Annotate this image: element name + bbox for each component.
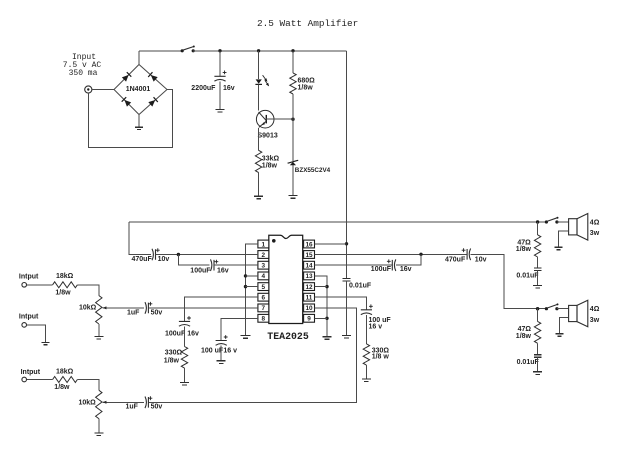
capacitor 470uF 10v ch2	[462, 248, 471, 260]
svg-text:100uF: 100uF	[371, 266, 392, 273]
wire pin14 to C100	[315, 264, 393, 266]
wire C ch2 to ground	[537, 357, 539, 371]
svg-text:7: 7	[262, 305, 266, 312]
wire R47 ch1 to cap	[537, 257, 539, 268]
resistor 33k	[255, 150, 261, 172]
label 10k ch1	[79, 305, 97, 312]
svg-text:10v: 10v	[475, 256, 487, 263]
wire R 33k to ground	[258, 173, 260, 196]
node zobel ch2	[536, 307, 539, 310]
ground zobel ch1	[533, 285, 542, 288]
node pin16 supply	[345, 242, 348, 245]
wire pin10 net	[148, 308, 356, 402]
svg-text:0.01uF: 0.01uF	[516, 272, 539, 279]
capacitor 100uF 16v pin6	[179, 316, 191, 326]
wire top rail right segment	[193, 50, 346, 52]
ground R330 left	[180, 382, 189, 385]
wire C1uF ch2 to wiper	[104, 401, 145, 403]
svg-text:2200uF: 2200uF	[191, 85, 216, 92]
wire pin15 net	[315, 253, 467, 255]
svg-text:16v: 16v	[223, 85, 235, 92]
label 18k ch1	[55, 273, 73, 297]
label 100uF ch2	[371, 266, 412, 273]
svg-text:18kΩ: 18kΩ	[56, 273, 74, 280]
ground R330 right	[362, 379, 371, 382]
svg-text:6: 6	[262, 295, 266, 302]
capacitor 1uF 50v ch2	[145, 396, 152, 408]
label 100uF pin6	[165, 331, 199, 338]
svg-text:1/8w: 1/8w	[55, 290, 71, 297]
node pin12 gnd	[325, 285, 328, 288]
wire C 2200uF to ground	[219, 82, 221, 109]
wire top speaker line y222	[129, 221, 546, 223]
svg-text:18kΩ: 18kΩ	[56, 368, 74, 375]
svg-text:1/8w: 1/8w	[54, 384, 70, 391]
label 330ohm left	[164, 350, 183, 365]
node bootstrap ch2	[419, 253, 422, 256]
resistor 330ohm right	[363, 344, 369, 365]
capacitor 0.01uF ch1	[534, 268, 542, 271]
node pin9 gnd	[325, 317, 328, 320]
svg-text:350 ma: 350 ma	[69, 69, 98, 78]
svg-text:11: 11	[306, 295, 313, 302]
wire R330 left to ground	[184, 368, 186, 382]
wire pin11 net	[315, 297, 367, 310]
wire C pin11 to R330 right	[365, 315, 367, 344]
ground C pin8	[217, 361, 226, 364]
svg-text:1/8w: 1/8w	[516, 333, 532, 340]
svg-text:680Ω: 680Ω	[298, 77, 316, 84]
svg-text:1/8w: 1/8w	[516, 246, 532, 253]
svg-text:1N4001: 1N4001	[126, 86, 151, 93]
svg-text:470uF: 470uF	[132, 256, 153, 263]
ground zobel ch2	[533, 372, 542, 375]
svg-text:Intput: Intput	[19, 274, 39, 281]
wire pin9	[315, 317, 328, 319]
svg-text:100 uF: 100 uF	[201, 348, 224, 355]
wire pin4	[246, 275, 258, 277]
svg-text:33kΩ: 33kΩ	[262, 155, 280, 162]
resistor 680ohm	[290, 73, 296, 94]
svg-text:10v: 10v	[158, 256, 170, 263]
label 1uF ch2	[126, 404, 163, 411]
wire C470 to pin2	[156, 254, 258, 256]
label 680ohm	[298, 77, 316, 91]
label 47ohm ch2	[516, 326, 532, 340]
potentiometer 10k ch2	[96, 390, 107, 418]
label input ch1	[19, 274, 39, 281]
wire LED to Q1 collector	[258, 85, 260, 111]
svg-text:16 v: 16 v	[223, 348, 237, 355]
label 100uF pin11	[369, 317, 392, 330]
wire R18k to pot ch1	[77, 285, 98, 296]
wire R 680 to base node	[292, 94, 294, 119]
potentiometer 10k ch1	[96, 296, 107, 324]
wire R18k to pot ch2	[77, 380, 98, 391]
wire J4 to R18k	[27, 379, 53, 381]
svg-text:1/8 w: 1/8 w	[372, 354, 390, 361]
node base-680-zener	[291, 118, 294, 121]
ground bridge	[135, 127, 143, 129]
LED D5	[255, 75, 270, 87]
wire zener to ground	[292, 165, 294, 195]
svg-text:Intput: Intput	[19, 313, 39, 320]
svg-text:0.01uF: 0.01uF	[349, 283, 372, 290]
svg-text:12: 12	[305, 284, 313, 291]
svg-text:470uF: 470uF	[445, 256, 466, 263]
resistor 47ohm ch1	[534, 235, 540, 257]
label 10k ch2	[79, 399, 97, 406]
wire speaker LS2 return	[560, 318, 569, 334]
label 100uF pin8	[201, 348, 237, 355]
capacitor 2200uF 16v	[214, 71, 226, 82]
wire J2 to R18k	[27, 284, 53, 286]
node rail-2200uF	[218, 49, 221, 52]
ground IC right	[323, 337, 332, 340]
zener D6 BZX55C2V4	[288, 160, 299, 165]
svg-text:5: 5	[262, 284, 266, 291]
diode D3 bridge lower-left	[122, 97, 132, 107]
label 470uF ch1	[132, 256, 170, 263]
svg-text:100uF: 100uF	[165, 331, 186, 338]
label speaker LS1	[590, 219, 600, 237]
switch SW2 speaker ch1	[545, 217, 559, 224]
svg-text:1uF: 1uF	[126, 404, 139, 411]
ground supply cap	[342, 335, 351, 338]
svg-text:4Ω: 4Ω	[590, 219, 600, 226]
switch SW1 power	[181, 46, 195, 53]
wire pin8 net	[221, 318, 258, 340]
wire speaker LS1 return	[558, 231, 568, 247]
U1 left pin boxes 1-8	[258, 240, 269, 323]
wire SW3 to speaker	[557, 308, 569, 310]
svg-text:50v: 50v	[151, 309, 163, 316]
resistor 18k ch1	[53, 282, 78, 288]
svg-text:4: 4	[262, 273, 266, 280]
connector J3 input unused	[22, 323, 27, 328]
svg-text:S9013: S9013	[258, 133, 278, 140]
svg-text:1uF: 1uF	[127, 309, 140, 316]
wire pot ch2 to ground	[98, 419, 100, 433]
diode D4 bridge lower-right	[148, 97, 158, 107]
svg-text:13: 13	[305, 273, 313, 280]
wire rail to LED	[258, 51, 260, 79]
wire Q1 emitter down	[258, 128, 260, 150]
label 18k ch2	[54, 368, 73, 391]
wire J3 to ground	[27, 325, 46, 342]
ground 33k	[254, 196, 263, 199]
wire C1uF to pin7	[148, 307, 258, 309]
bridge label 1N4001	[126, 86, 151, 93]
ground speaker LS1	[554, 247, 562, 249]
label 0.01uF ch1	[516, 272, 539, 279]
svg-text:15: 15	[305, 252, 313, 259]
ground J3	[42, 342, 50, 344]
svg-text:TEA2025: TEA2025	[267, 331, 309, 342]
wire R330 right to ground	[365, 365, 367, 378]
svg-text:2.5 Watt Amplifier: 2.5 Watt Amplifier	[257, 18, 358, 29]
ground 2200uF	[216, 109, 225, 112]
svg-text:1/8w: 1/8w	[164, 358, 180, 365]
node rail-680	[291, 49, 294, 52]
U1 right pin boxes 16-9	[304, 240, 315, 323]
op-amp U1 TEA2025 body	[269, 235, 303, 323]
node bootstrap ch1	[177, 253, 180, 256]
svg-text:1: 1	[262, 241, 266, 248]
label S9013	[258, 133, 278, 140]
ground zener	[289, 196, 298, 199]
wire top rail left segment	[139, 50, 182, 52]
capacitor 1uF 50v ch1	[145, 302, 152, 314]
wire pin12	[315, 286, 328, 288]
node zobel ch1	[536, 220, 539, 223]
svg-text:14: 14	[305, 263, 313, 270]
ground IC left	[240, 336, 250, 339]
svg-text:16v: 16v	[400, 266, 412, 273]
svg-text:330Ω: 330Ω	[165, 350, 183, 357]
wire pot ch1 to ground	[98, 324, 100, 336]
label 2200uF	[191, 85, 234, 92]
wire J1 to bridge left vertex	[92, 89, 114, 91]
wire zobel ch1 drop	[537, 222, 539, 235]
wire C470 ch2 to bottom speaker line	[471, 254, 547, 308]
wire C100 to pin3	[214, 264, 258, 266]
svg-text:16v: 16v	[187, 331, 199, 338]
wire wiper ch1 to C1uF	[104, 307, 145, 309]
diode D1 bridge upper-left	[122, 72, 132, 82]
svg-text:1/8w: 1/8w	[262, 163, 278, 170]
capacitor 0.01uF supply	[343, 278, 351, 281]
svg-text:16v: 16v	[217, 267, 229, 274]
resistor 330ohm left	[181, 347, 187, 369]
label 1uF ch1	[127, 309, 162, 316]
wire base node to zener	[292, 119, 294, 161]
svg-text:0.01uF: 0.01uF	[517, 359, 540, 366]
wire supply cap to ground	[346, 281, 348, 335]
label speaker LS2	[590, 306, 600, 324]
resistor 47ohm ch2	[534, 321, 540, 343]
capacitor 100uF 16v ch1 bootstrap	[211, 259, 219, 271]
wire C100 ch2 riser	[396, 254, 421, 265]
wire R47 ch2 to cap	[537, 343, 539, 354]
svg-text:10: 10	[305, 305, 313, 312]
svg-text:50v: 50v	[151, 404, 163, 411]
wire pin13 ground vertical	[315, 276, 328, 336]
svg-text:4Ω: 4Ω	[590, 306, 600, 313]
svg-text:16 v: 16 v	[369, 323, 383, 330]
speaker LS2	[569, 300, 588, 327]
ground pot ch2	[94, 433, 103, 436]
svg-text:3w: 3w	[590, 317, 600, 324]
wire C to R330 left	[184, 326, 186, 346]
wire pin5	[246, 286, 258, 288]
wire zobel ch2 drop	[537, 309, 539, 322]
svg-text:Intput: Intput	[21, 369, 41, 376]
wire pin1 to ground vertical	[246, 244, 258, 335]
transistor Q1 S9013	[256, 110, 274, 128]
svg-text:16: 16	[305, 241, 313, 248]
node rail-LED	[257, 49, 260, 52]
svg-text:8: 8	[262, 316, 266, 323]
label 33k	[262, 155, 280, 169]
label BZX55C2V4	[295, 167, 331, 174]
capacitor 0.01uF ch2	[534, 355, 542, 358]
svg-text:9: 9	[307, 316, 311, 323]
capacitor 100uF 16v pin8	[216, 335, 228, 345]
label 0.01uF ch2	[517, 359, 540, 366]
bridge diamond wires	[114, 65, 167, 115]
connector J1 AC input	[85, 86, 92, 93]
node pin5 gnd	[244, 285, 247, 288]
ground speaker LS2	[556, 334, 564, 336]
svg-text:2: 2	[262, 252, 266, 259]
wire Q1 base	[266, 118, 293, 120]
wire C ch1 to ground	[537, 271, 539, 285]
wire out1 left riser	[129, 222, 151, 255]
wire C pin8 to ground	[220, 346, 222, 361]
diode D2 bridge upper-right	[148, 72, 158, 82]
svg-text:100uF: 100uF	[190, 267, 211, 274]
wire rail to C 2200uF	[219, 51, 221, 77]
connector J2 input ch1	[22, 283, 27, 288]
label 470uF ch2	[445, 256, 487, 263]
wire rail to R 680	[292, 51, 294, 73]
speaker LS1	[569, 214, 588, 241]
resistor 18k ch2	[53, 377, 78, 383]
label 0.01uF supply	[349, 283, 372, 290]
wire pin16 to supply	[315, 243, 347, 245]
wire SW2 to speaker	[557, 221, 569, 223]
capacitor 100uF 16v pin11	[361, 304, 373, 314]
wire supply vertical upper	[346, 51, 348, 278]
switch SW3 speaker ch2	[545, 303, 559, 310]
wire pin6 net	[185, 297, 258, 321]
wire AC return loop	[88, 90, 172, 148]
svg-text:3: 3	[262, 263, 266, 270]
svg-text:1/8w: 1/8w	[298, 85, 314, 92]
label input ch2	[21, 369, 41, 376]
label TEA2025	[267, 331, 309, 342]
ground pot ch1	[94, 336, 103, 339]
svg-text:3w: 3w	[590, 230, 600, 237]
node pin4 gnd	[244, 274, 247, 277]
wire bridge bottom vertex down	[138, 115, 140, 127]
connector J4 input ch2	[22, 377, 27, 382]
capacitor 470uF 10v ch1	[152, 248, 160, 260]
label 100uF ch1	[190, 267, 228, 274]
wire bootstrap drop ch1	[178, 255, 209, 266]
svg-text:10kΩ: 10kΩ	[79, 305, 97, 312]
capacitor 100uF 16v ch2 bootstrap	[387, 259, 396, 271]
label 330ohm right	[372, 347, 390, 360]
title text	[257, 18, 358, 29]
svg-text:10kΩ: 10kΩ	[79, 399, 97, 406]
AC input label	[63, 53, 102, 78]
label 47ohm ch1	[516, 239, 532, 253]
svg-text:BZX55C2V4: BZX55C2V4	[295, 167, 331, 174]
label input dead	[19, 313, 39, 320]
wire bridge top vertex to rail	[138, 51, 140, 65]
